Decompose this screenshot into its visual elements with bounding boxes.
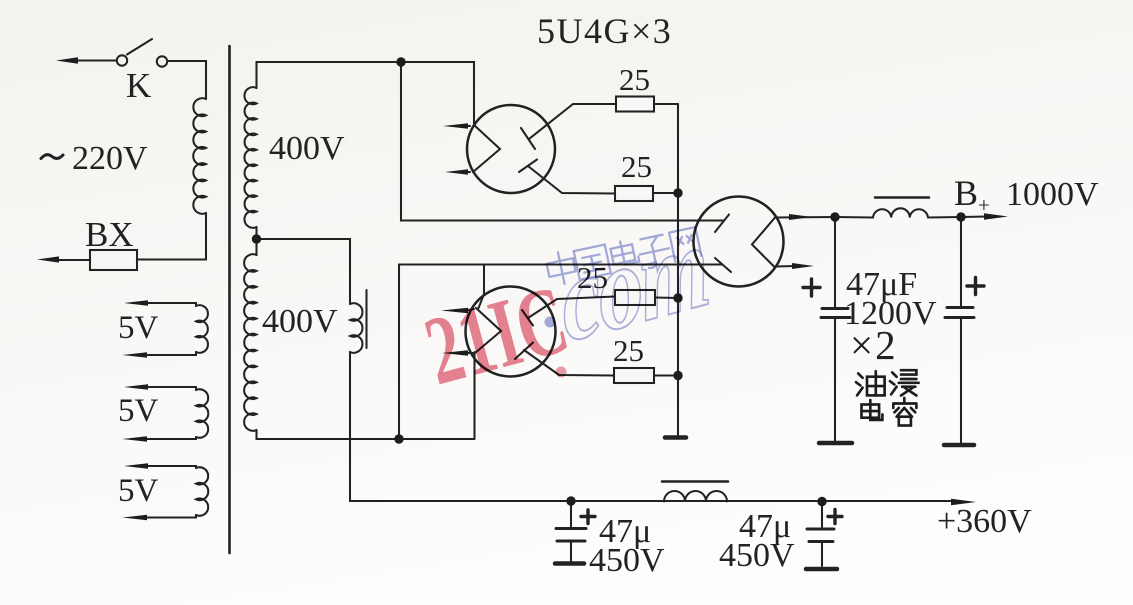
svg-text:+: + (978, 193, 990, 217)
svg-text:5V: 5V (118, 473, 159, 509)
svg-text:220V: 220V (72, 140, 148, 177)
svg-text:5V: 5V (118, 393, 159, 429)
svg-text:25: 25 (621, 149, 652, 184)
svg-text:5U4G×3: 5U4G×3 (537, 11, 672, 51)
svg-text:×2: ×2 (850, 322, 898, 368)
svg-text:5V: 5V (118, 310, 159, 346)
svg-text:25: 25 (619, 62, 650, 97)
svg-text:K: K (126, 66, 151, 105)
svg-text:BX: BX (85, 215, 134, 254)
svg-text:450V: 450V (589, 542, 665, 579)
svg-text:400V: 400V (262, 303, 338, 340)
svg-text:B: B (954, 173, 978, 213)
svg-text:1000V: 1000V (1006, 176, 1099, 213)
svg-text:+360V: +360V (937, 503, 1032, 540)
svg-text:400V: 400V (269, 130, 345, 167)
svg-text:450V: 450V (719, 537, 795, 574)
